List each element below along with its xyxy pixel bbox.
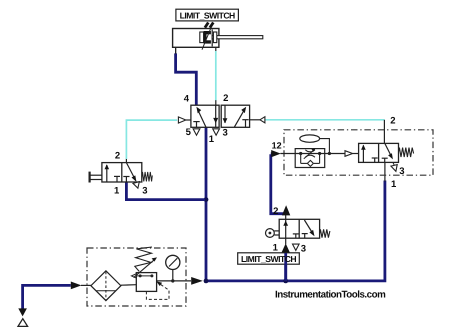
regulator spring <box>135 247 152 271</box>
timer pilot line through throttle <box>280 153 345 155</box>
pilot arrow into timer valve <box>345 151 353 157</box>
cylinder A1 (double-acting with limit switch cam) <box>173 23 263 54</box>
svg-text:1: 1 <box>209 134 215 145</box>
pushbutton actuator <box>88 172 90 183</box>
active position blocked port 3 <box>293 233 299 235</box>
left position: 1 to 4 path <box>197 109 206 127</box>
pilot arrow into 5/2 right side <box>260 117 265 123</box>
wire: filter to regulator <box>121 284 136 287</box>
exhaust port 5 <box>193 129 200 135</box>
svg-text:1: 1 <box>114 185 120 196</box>
flow arrow into main line (right) <box>191 277 203 285</box>
valve V3: timer 3/2-way valve <box>359 143 414 171</box>
valve V2: 3/2-way roller limit switch valve <box>266 219 330 250</box>
return spring <box>320 229 330 237</box>
svg-text:2: 2 <box>273 206 278 217</box>
wire: right riser stub into timer box <box>384 163 386 182</box>
active position: 1 to 2 path <box>285 219 287 238</box>
left position: 2 to 3 path <box>215 105 217 127</box>
right position: down path <box>224 105 226 123</box>
right position: 1 to 2 path <box>234 109 245 127</box>
right position: 2 to 3 path <box>126 163 135 181</box>
regulator feedback dashed line <box>146 283 169 299</box>
svg-text:3: 3 <box>399 166 404 177</box>
svg-text:3: 3 <box>301 243 306 254</box>
svg-text:3: 3 <box>142 186 147 197</box>
air reservoir <box>300 135 331 155</box>
return spring <box>399 148 414 157</box>
exhaust port 3 <box>213 129 220 135</box>
label LIMIT_SWITCH (cylinder) <box>176 9 239 21</box>
valve U1: 5/2-way double pilot valve <box>191 105 250 135</box>
svg-text:1: 1 <box>391 179 397 190</box>
junction left valve branch <box>204 197 209 202</box>
regulator adjustment arrow <box>134 260 154 277</box>
svg-text:2: 2 <box>390 115 395 126</box>
left position blocked port <box>372 157 378 159</box>
timer enclosure (dash-dot box) <box>284 130 433 175</box>
svg-text:LIMIT_SWITCH: LIMIT_SWITCH <box>241 254 296 264</box>
label LIMIT_SWITCH (roller valve) <box>238 253 300 281</box>
wire: left 3/2 valve port 1 branch <box>126 182 205 200</box>
flow arrow into port 1 (up) <box>281 243 290 253</box>
svg-text:2: 2 <box>115 150 120 161</box>
pilot wire: left 3/2 valve port 2 to 5/2 left pilot (cyan) <box>126 120 177 163</box>
left position: 1 to 2 path <box>106 165 108 182</box>
roller actuator <box>266 229 275 238</box>
right position: blocked port <box>245 120 247 128</box>
left position: 1 to 2 path <box>362 145 364 162</box>
svg-text:LIMIT_SWITCH: LIMIT_SWITCH <box>180 10 235 20</box>
junction limit-switch line <box>283 279 288 284</box>
pilot arrow into 5/2 left side <box>178 117 185 123</box>
svg-text:2: 2 <box>223 93 228 104</box>
wire: stub into service unit <box>81 284 91 286</box>
return spring <box>142 172 153 182</box>
valve V1: 3/2-way pushbutton valve <box>90 163 153 189</box>
flow arrow at port 2 (up) <box>282 205 290 215</box>
rest position: 2 to 3 path <box>385 143 392 157</box>
rest position blocked port 1 <box>382 157 388 159</box>
wire: 5/2 port 4 to cylinder left port <box>176 53 197 105</box>
junction at gauge stem <box>171 279 174 282</box>
svg-text:12: 12 <box>272 140 282 150</box>
svg-text:InstrumentationTools.com: InstrumentationTools.com <box>275 290 386 301</box>
exhaust port 3 <box>391 165 397 172</box>
svg-text:5: 5 <box>186 127 192 138</box>
wire: regulator output to box edge <box>157 280 191 282</box>
wire: limit-switch valve port 1 from main line <box>284 253 287 281</box>
service unit enclosure (dash-dot box) <box>87 248 186 306</box>
left position blocked port <box>114 175 120 177</box>
wire: limit-switch valve port 2 to timer pilot input 12 <box>271 154 285 214</box>
flow arrow at air source (down) <box>18 308 27 316</box>
right position blocked port 1 <box>123 176 129 178</box>
throttle check assembly <box>295 148 325 167</box>
limit switch cam line <box>202 23 213 49</box>
pilot wire: cylinder right port to 5/2 port 2 (cyan) <box>215 47 217 105</box>
exhaust port 3 <box>293 244 300 250</box>
filter F1 (diamond with separator) <box>91 271 121 301</box>
pressure regulator R1 <box>131 247 169 299</box>
wire: supply riser from air source to service unit <box>23 285 71 309</box>
junction main bottom <box>204 279 209 284</box>
pressure gauge G1 <box>166 255 180 281</box>
check valve bypass <box>300 154 302 164</box>
pilot wire: timer port 2 to 5/2 right pilot (cyan) <box>265 120 385 144</box>
wire: main vertical supply line <box>205 127 208 281</box>
rest position blocked port <box>302 233 308 235</box>
svg-text:1: 1 <box>273 242 279 253</box>
wire: bottom main line and right riser <box>204 181 385 281</box>
air source symbol (open triangle) <box>18 319 28 327</box>
exhaust port 3 <box>133 182 139 189</box>
left position: port 5 blocked <box>196 122 198 128</box>
svg-text:4: 4 <box>184 94 190 105</box>
flow arrow into filter (right) <box>71 282 82 290</box>
rest position: 2 to 3 path <box>304 220 312 233</box>
svg-text:3: 3 <box>222 127 227 138</box>
